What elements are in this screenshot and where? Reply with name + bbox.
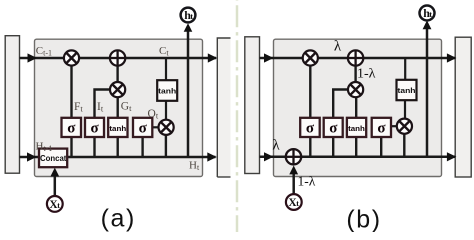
svg-text:Gt: Gt [121,101,132,114]
wire: tanh to output multiply (a) [165,100,167,127]
sigma box 2 (b) [324,118,343,137]
svg-text:Xt: Xt [288,197,299,209]
multiply gate F (b) [303,50,318,65]
svg-text:tanh: tanh [158,86,176,95]
svg-text:1-λ: 1-λ [357,67,376,82]
previous-cell narrow rect (b left) [245,37,260,174]
arrowhead: H exit (a) [207,152,217,161]
cell body box (b) [274,39,442,176]
svg-text:σ: σ [67,120,76,136]
wire: sigma3 to output multiply (b) [391,125,399,127]
arrowhead: C exit (a) [208,53,218,62]
ht circle (b) [420,6,435,21]
svg-text:It: It [97,101,104,114]
wire: Xt up into Concat (a) [54,177,57,197]
add gate (a) [110,50,125,65]
arrowhead: into ht circle (a) [184,23,193,32]
arrowhead: C entry (a) [28,53,38,62]
wire: tanh to output multiply (b) [404,100,406,127]
sigma box I (a) [85,118,104,137]
svg-text:ht: ht [184,8,193,22]
tanh box G (b) [347,118,366,137]
svg-text:σ: σ [377,120,386,136]
wire: box bottoms to H line (a) [70,137,72,158]
svg-text:(a): (a) [101,205,136,233]
svg-text:Ot: Ot [148,108,159,121]
wire: G gate vertical (a) [116,90,118,119]
next-cell narrow rect (a right) [217,38,230,177]
wire: mid-multiply to add vertical (b) [354,58,356,90]
svg-text:ht: ht [423,6,432,20]
wire: C line (b) [260,57,456,60]
sigma box F (a) [62,118,82,137]
wire: G gate vertical (b) [355,90,357,119]
wire: H line (a) [20,156,216,159]
output multiply gate (a) [159,120,174,135]
svg-text:λ: λ [272,138,280,154]
sigma box 3 (b) [372,118,391,137]
arrowhead: H exit (b) [447,152,457,161]
tanh box on C branch (b) [397,80,417,100]
svg-text:(b): (b) [346,206,381,233]
next-cell narrow rect (b right) [455,37,471,177]
tanh box G (a) [108,118,127,137]
wire: C line (a) [20,57,217,60]
svg-text:σ: σ [306,120,315,136]
arrowhead: H entry (a) [27,152,37,161]
Concat box (a) [39,149,67,168]
arrowhead: into Concat (a) [50,168,59,177]
arrowhead: H entry (b) [264,152,274,161]
wire: tanh branch from C line (a) [165,58,167,82]
svg-text:tanh: tanh [398,86,416,95]
previous-cell narrow rect (a left) [5,36,19,174]
Xt circle (a) [47,196,63,212]
merge add gate on H line (b) [286,149,301,164]
svg-text:Xt: Xt [49,199,60,211]
mid multiply gate (b) [348,82,363,97]
svg-text:λ: λ [334,39,342,55]
sigma box O (a) [133,118,152,137]
mid multiply gate (a) [110,82,125,97]
wire: H line (b) [260,156,456,159]
output multiply gate (b) [397,119,412,134]
svg-text:σ: σ [329,120,338,136]
svg-text:σ: σ [139,120,148,136]
wire: F gate vertical (b) [309,58,311,119]
cell body box (a) [35,39,203,176]
svg-text:Concat: Concat [40,154,67,163]
wire: ht output branch (a) [187,31,190,157]
wire: output multiply down to H line (b) [403,126,405,157]
add gate top (b) [348,50,363,65]
Xt circle (b) [286,194,302,210]
separator dash-dot line between (a) and (b) [236,0,239,233]
wire: mid-multiply to add vertical (a) [116,58,118,90]
sigma box 1 (b) [300,118,320,137]
wire: output multiply down to H line (a) [165,127,167,157]
wire: box bottoms to H line (b) [309,137,311,157]
svg-text:1-λ: 1-λ [298,173,316,188]
wire: F gate vertical (a) [70,58,72,119]
arrowhead: C entry (b) [264,53,274,62]
svg-text:tanh: tanh [109,126,126,133]
wire: I gate elbow (a) [95,90,112,119]
multiply gate F (a) [64,50,79,65]
wire: ht output branch (b) [426,29,429,157]
tanh box on C branch (a) [157,80,177,101]
wire: I gate elbow (b) [333,90,349,119]
arrowhead: into merge add (b) [289,166,298,175]
wire: sigma3 to output multiply (a) [152,126,160,128]
svg-text:tanh: tanh [348,126,365,133]
arrowhead: into ht circle (b) [423,20,432,29]
svg-text:σ: σ [91,120,100,136]
svg-text:Ft: Ft [74,101,83,114]
wire: tanh branch from C line (b) [404,58,406,81]
arrowhead: C exit (b) [447,53,457,62]
wire: Xt up into merge add (b) [292,174,295,194]
ht circle (a) [181,8,196,23]
